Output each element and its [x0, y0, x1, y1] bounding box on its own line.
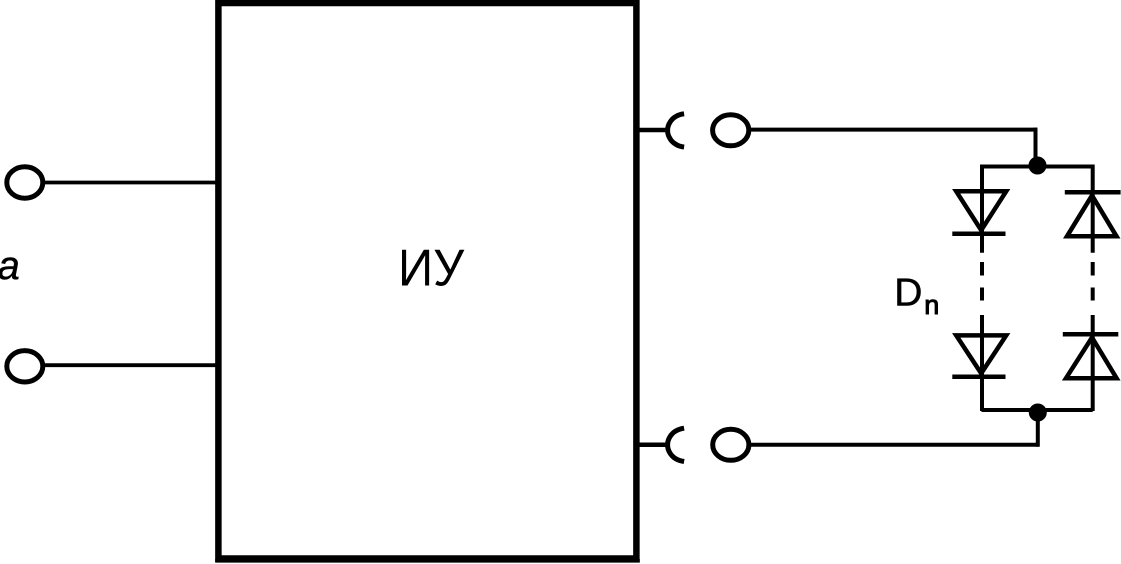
- svg-text:ИУ: ИУ: [398, 240, 465, 298]
- svg-text:D: D: [894, 271, 922, 314]
- svg-text:a: a: [0, 244, 20, 288]
- svg-text:n: n: [924, 290, 939, 320]
